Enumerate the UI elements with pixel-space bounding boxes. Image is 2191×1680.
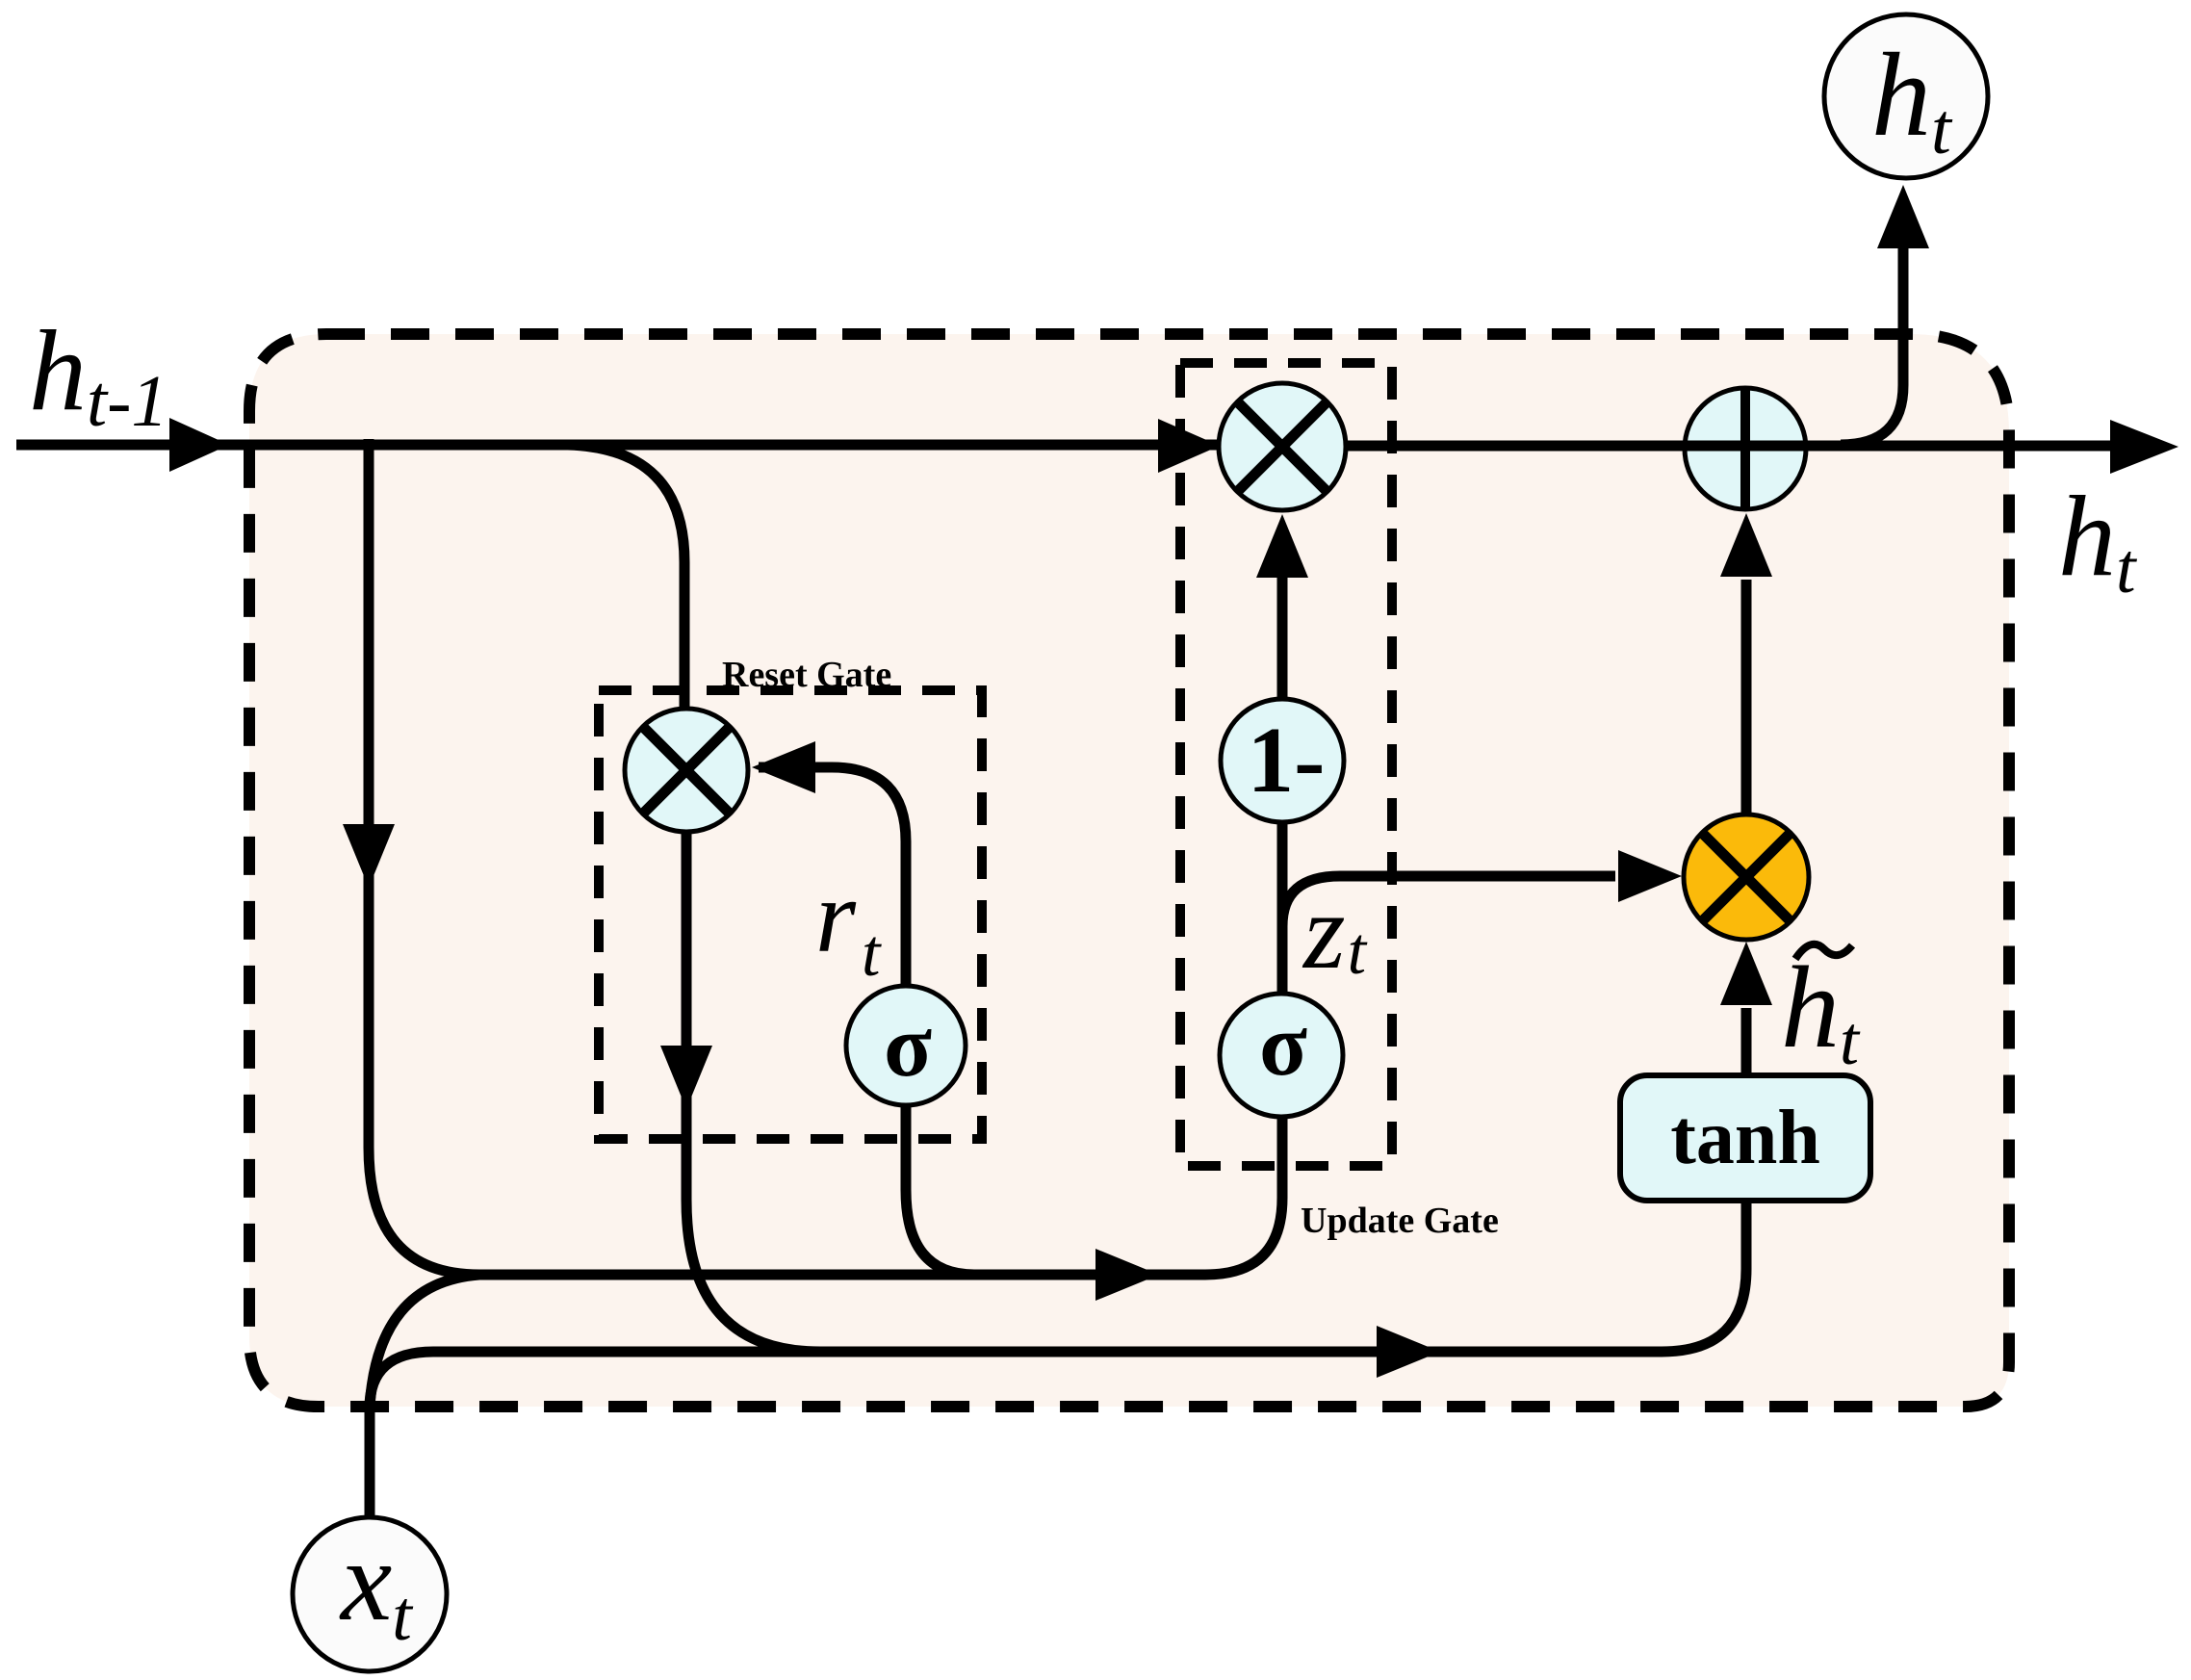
wire: x_t up, line2, into tanh (370, 1201, 1746, 1519)
h_t node top (1824, 14, 1988, 178)
arrowhead left into reset multiplier (752, 741, 815, 793)
tanh box (1620, 1075, 1870, 1201)
arrowhead up into adder (1720, 513, 1772, 577)
wire: branch from main line to reset multiplier (568, 445, 684, 711)
reset gate dashed box (599, 690, 982, 1139)
arrowhead output right (2110, 420, 2178, 474)
update multiplier circle (1219, 383, 1346, 510)
svg-text:σ: σ (884, 996, 932, 1095)
update sigma circle (1220, 994, 1343, 1117)
wire: update mult to 1- circle (1277, 578, 1288, 701)
arrowhead on line1 (1095, 1249, 1159, 1301)
svg-text:1-: 1- (1248, 709, 1326, 812)
update gate dashed box (1180, 363, 1392, 1166)
wire: main line right segment through adder to output (1346, 441, 2116, 452)
wire: r_t from sigma to reset multiplier (759, 767, 906, 988)
x_t node (293, 1517, 447, 1671)
1- circle (1221, 699, 1344, 822)
wire: orange multiplier up to adder (1741, 580, 1752, 816)
wire: reset multiplier output down, merge into line2 (686, 830, 820, 1352)
wire: tanh up to orange multiplier (1741, 1008, 1752, 1075)
wire: x_t merge into line1 (370, 1275, 479, 1408)
wire: output branch up to h_t node (1841, 246, 1903, 445)
arrowhead up into update multiplier (1256, 514, 1308, 578)
svg-text:tanh: tanh (1670, 1096, 1820, 1180)
arrowhead on line2 (1377, 1326, 1440, 1378)
arrowhead down on h branch (343, 824, 395, 888)
arrowhead into update multiplier (1158, 419, 1220, 473)
arrowhead up into h_t node (1877, 185, 1929, 248)
arrowhead entering cell (169, 418, 229, 472)
arrowhead into orange multiplier (1618, 850, 1682, 902)
wire: z_t branch to orange multiplier (1282, 876, 1615, 926)
svg-text:Reset Gate: Reset Gate (722, 655, 891, 695)
adder circle (1685, 388, 1806, 509)
wire: main h(t-1) line left segment (16, 440, 1217, 451)
wire: feed from line1 up into reset sigma (906, 1103, 974, 1275)
arrowhead down on reset output (660, 1046, 712, 1109)
svg-text:ht-1: ht-1 (29, 306, 168, 442)
orange multiplier circle (1684, 814, 1809, 940)
arrowhead up into orange multiplier (1720, 942, 1772, 1005)
svg-text:ht: ht (2058, 472, 2138, 608)
reset multiplier circle (625, 709, 748, 832)
reset sigma circle (846, 986, 966, 1105)
wire: 1- to update sigma (1277, 820, 1288, 995)
wire: h branch down + line1 + feed into update sigma (369, 439, 1282, 1275)
svg-text:Update Gate: Update Gate (1301, 1201, 1499, 1241)
GRU cell body (dashed rounded box) (249, 334, 2009, 1407)
svg-text:σ: σ (1259, 995, 1307, 1094)
